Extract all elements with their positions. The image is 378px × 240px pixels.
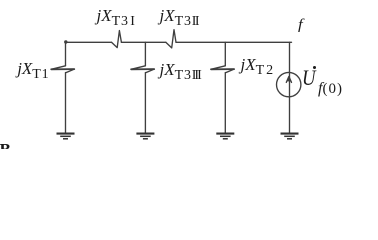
voltage source value label dot over U: [313, 66, 316, 69]
voltage source value label U letter: [302, 67, 316, 89]
voltage source U_f(0) circle: [277, 72, 301, 96]
reactance X_T1 zigzag: [51, 66, 74, 73]
wire branch 1 lower: [65, 73, 67, 134]
ground branch 1: [57, 133, 75, 135]
wire top bus middle segment: [121, 41, 165, 43]
partial letter B at bottom edge: [0, 141, 11, 158]
wire branch 2 lower: [144, 73, 146, 134]
ground branch 4: [281, 133, 299, 135]
wire branch 3 lower: [224, 73, 226, 134]
reactance X_T3III zigzag: [131, 66, 154, 73]
label jX_T3I: [97, 7, 134, 25]
label jX_T2: [241, 56, 274, 74]
wire branch 2 upper: [144, 42, 146, 66]
ground branch 3: [216, 133, 234, 135]
wire top bus left segment: [66, 41, 112, 43]
junction dot at top-left corner: [64, 40, 67, 43]
voltage source value label subscript f(0): [318, 81, 343, 97]
reactance X_T2 zigzag: [211, 66, 234, 73]
ground branch 2: [136, 133, 154, 135]
wire top bus right segment to node f: [176, 41, 292, 43]
wire branch 4 (node f) vertical: [289, 42, 291, 133]
wire branch 1 upper: [65, 42, 67, 66]
wire branch 3 upper: [224, 42, 226, 66]
reactance X_T3II zigzag: [166, 30, 176, 48]
reactance X_T3I zigzag: [112, 31, 122, 48]
node f label: [298, 18, 303, 33]
label jX_T3III: [160, 61, 200, 79]
label jX_T3II: [160, 7, 199, 25]
label jX_T1: [17, 60, 49, 78]
voltage source arrow head: [286, 76, 291, 82]
